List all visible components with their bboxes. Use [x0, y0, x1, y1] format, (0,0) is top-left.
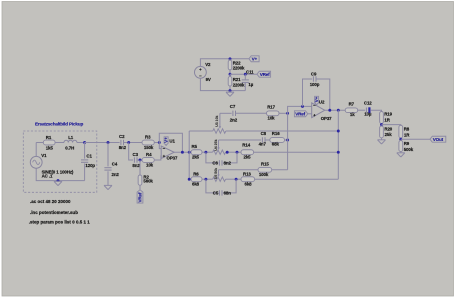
wire V2 top [200, 59, 249, 67]
wire U2 V+ stub [316, 103, 318, 105]
net flag VOut [430, 136, 446, 142]
svg-text:C9: C9 [311, 72, 317, 77]
net flag V+ at U1 [164, 137, 169, 145]
wire U1 V+ stub [165, 144, 167, 146]
wire C1 branch [84, 143, 86, 159]
svg-text:R13: R13 [243, 171, 251, 176]
svg-text:4n7: 4n7 [259, 142, 267, 147]
wire R16 to sum bus [285, 139, 288, 141]
wire V1 to R1 [36, 142, 43, 144]
wire C4 to gnd [107, 171, 109, 185]
svg-text:R7: R7 [349, 101, 355, 106]
svg-text:VRef: VRef [138, 192, 143, 202]
node R6 left [188, 178, 191, 181]
resistor R16 [270, 131, 285, 147]
svg-text:U5 50k: U5 50k [214, 168, 218, 179]
potentiometer P3 [213, 168, 226, 182]
node R2 tap [139, 159, 142, 162]
wire R20 to ground [381, 138, 383, 140]
svg-text:150k: 150k [144, 145, 154, 150]
resistor R22 [228, 60, 245, 70]
net flag VRef [257, 71, 271, 77]
node C9 join [301, 105, 304, 108]
wire R22 stubs [229, 59, 231, 60]
net flag V+ at U2 [314, 96, 319, 104]
node pickup output [83, 141, 86, 144]
svg-text:2k5: 2k5 [244, 155, 252, 160]
svg-text:R6: R6 [193, 171, 199, 176]
svg-text:V+: V+ [252, 57, 258, 62]
capacitor C8 [259, 131, 267, 147]
node C3 tap [127, 141, 130, 144]
wire R1 to L1 [55, 142, 64, 144]
svg-text:1µ: 1µ [248, 82, 253, 87]
wire C2 to R3 [124, 142, 142, 144]
svg-text:8n2: 8n2 [132, 163, 140, 168]
wire R3 to node [154, 142, 159, 144]
node R16 join [286, 139, 289, 142]
svg-text:1R: 1R [404, 133, 410, 138]
svg-text:8n2: 8n2 [119, 145, 127, 150]
svg-text:.step param pos list 0 0.5 1 1: .step param pos list 0 0.5 1 1 [29, 220, 91, 225]
inductor L1 [64, 135, 77, 150]
svg-text:Ersatzschaltbild Pickup: Ersatzschaltbild Pickup [35, 122, 83, 127]
svg-text:6k8: 6k8 [192, 182, 200, 187]
node C9 out join [328, 109, 331, 112]
wire L1 to node [77, 142, 85, 144]
node C11 tap [244, 73, 247, 76]
wire C5 loop [206, 179, 219, 193]
net flag V+ [249, 56, 259, 62]
wire V1 top [35, 143, 37, 157]
svg-text:2n2: 2n2 [112, 172, 120, 177]
wire wiper2 to C8 [219, 139, 262, 141]
resistor R14 [241, 143, 254, 160]
svg-text:.inc potentiometer.sub: .inc potentiometer.sub [30, 210, 78, 215]
svg-text:OP37: OP37 [167, 156, 178, 161]
svg-text:25k: 25k [385, 132, 393, 137]
wire C9 right [316, 79, 330, 110]
node C4 tap [107, 141, 110, 144]
wire C9 left [303, 79, 313, 106]
svg-text:1R: 1R [384, 118, 390, 123]
potentiometer P2 [213, 139, 226, 154]
node pickup gnd [57, 179, 60, 182]
svg-text:2n2: 2n2 [230, 117, 238, 122]
resistor R4 [142, 152, 154, 168]
op-amp U2 [312, 100, 332, 121]
wire C12 to R19 [371, 110, 382, 111]
wire R9 to ground [400, 152, 402, 153]
svg-text:100k: 100k [259, 172, 269, 177]
svg-text:68k: 68k [272, 141, 280, 146]
resistor R6 [191, 171, 202, 186]
svg-text:R16: R16 [272, 131, 280, 136]
wire pot1 left [189, 130, 213, 132]
node V+ node [229, 57, 232, 60]
svg-text:C7: C7 [230, 104, 236, 109]
wire R5 to pot2 [202, 151, 213, 153]
svg-text:C3: C3 [133, 152, 139, 157]
wire R14 to out bus [254, 151, 339, 153]
svg-text:R20: R20 [384, 127, 392, 132]
wire R2 bottom [139, 185, 141, 190]
wire R4 to U1 -in [154, 156, 161, 160]
node out bus R14 [337, 151, 340, 154]
resistor R8 [399, 125, 410, 138]
svg-text:VRef: VRef [295, 112, 305, 117]
wire C3 branch [129, 143, 133, 161]
svg-text:R21: R21 [233, 77, 241, 82]
resistor R19 [380, 112, 393, 124]
wire C6 loop [206, 152, 219, 163]
svg-text:R19: R19 [384, 112, 392, 117]
svg-text:9V: 9V [206, 77, 211, 82]
svg-text:R8: R8 [404, 127, 410, 132]
svg-text:C4: C4 [112, 161, 118, 166]
node out bus pot1 [337, 130, 340, 133]
wire R21 stubs [229, 74, 231, 76]
wire R2 top [139, 160, 141, 175]
svg-text:U4 25k: U4 25k [214, 139, 218, 150]
potentiometer P1 [213, 113, 226, 133]
svg-text:V1: V1 [41, 153, 47, 158]
svg-text:R5: R5 [192, 144, 198, 149]
wire R19 to R20 [381, 124, 383, 127]
wire C1 to bottom [84, 164, 86, 181]
wire R15 to sum bus [272, 169, 288, 171]
svg-text:560k: 560k [143, 179, 153, 184]
wire U1 feedback loop [159, 133, 182, 152]
svg-text:U3 10k: U3 10k [215, 115, 219, 126]
capacitor C9 [310, 72, 320, 87]
wire main input [85, 142, 120, 144]
svg-text:R4: R4 [146, 152, 152, 157]
wire VRef wire [230, 73, 257, 75]
wire R8 to R9 [400, 138, 402, 141]
node VRef divider [229, 73, 232, 76]
wire wiper3 to R15 [219, 169, 259, 171]
capacitor C6 [212, 160, 231, 165]
Ersatzschaltbild Pickup dashed boundary [23, 131, 97, 192]
wire volume tap to R8 [382, 124, 401, 127]
node sum node [286, 112, 289, 115]
capacitor C5 [213, 190, 231, 195]
svg-text:10k: 10k [146, 162, 154, 167]
resistor R5 [191, 144, 202, 159]
ground V2 [226, 92, 234, 96]
resistor R15 [258, 162, 272, 177]
wire R17 to sum node [279, 112, 288, 114]
svg-text:OP37: OP37 [321, 116, 332, 121]
svg-text:500k: 500k [404, 147, 414, 152]
net flag VRef at R2 [137, 190, 143, 203]
capacitor C4 [104, 161, 119, 177]
node C6 right [236, 151, 239, 154]
svg-text:1k5: 1k5 [46, 145, 54, 150]
node U1 out bus [188, 151, 191, 154]
svg-text:1k: 1k [350, 112, 355, 117]
svg-text:C1: C1 [86, 153, 92, 158]
svg-text:C5: C5 [213, 191, 219, 196]
svg-text:6k8: 6k8 [245, 182, 253, 187]
wire to VOut flag [401, 138, 430, 140]
capacitor C12 [364, 100, 372, 116]
svg-text:R9: R9 [404, 141, 410, 146]
voltage source V2 [195, 62, 212, 82]
wire out bus [337, 110, 339, 179]
wire V1 bottom [36, 168, 84, 180]
svg-text:.ac oct 48 20 20000: .ac oct 48 20 20000 [30, 199, 71, 204]
wire sum bus [288, 106, 312, 169]
wire U1 output [174, 151, 191, 153]
svg-text:R3: R3 [145, 134, 151, 139]
wire pot1 right to out bus [226, 130, 338, 132]
voltage source V1 [30, 153, 74, 179]
svg-text:2200k: 2200k [233, 82, 245, 87]
ground C4 [104, 185, 112, 189]
svg-text:V2: V2 [205, 62, 211, 67]
wire R6 to pot3 [202, 178, 213, 180]
capacitor C2 [119, 134, 127, 150]
svg-text:100p: 100p [310, 82, 320, 87]
svg-text:C12: C12 [364, 100, 372, 105]
wire C4 branch [107, 143, 109, 167]
svg-text:R17: R17 [267, 104, 275, 109]
ground R9 [397, 153, 405, 157]
node C5 right [235, 178, 238, 181]
wire C11 [244, 74, 246, 79]
resistor R9 [399, 141, 414, 152]
capacitor C1 [81, 153, 95, 168]
resistor R2 [138, 175, 153, 186]
svg-text:L1: L1 [68, 135, 74, 140]
capacitor C3 [132, 152, 140, 168]
wire V2 bottom [200, 78, 245, 90]
op-amp U1 [161, 138, 178, 160]
node VOut node [399, 138, 402, 141]
wire C3 to R2 node [137, 159, 142, 161]
node out bus top [337, 109, 340, 112]
svg-text:8n2: 8n2 [224, 160, 232, 165]
capacitor C11 [242, 80, 254, 87]
node V2 gnd [229, 89, 232, 92]
resistor R13 [241, 171, 255, 186]
svg-text:R14: R14 [242, 143, 250, 148]
resistor R7 [345, 101, 358, 117]
node U1 fb join [181, 151, 184, 154]
svg-text:U1: U1 [169, 138, 175, 143]
node volume tap [380, 123, 383, 126]
svg-text:C2: C2 [119, 134, 125, 139]
svg-text:R15: R15 [261, 162, 269, 167]
svg-text:U2: U2 [319, 100, 325, 105]
svg-text:C11: C11 [246, 70, 254, 75]
ground pickup [54, 181, 62, 185]
resistor R17 [267, 104, 280, 120]
svg-text:C6: C6 [212, 160, 218, 165]
svg-text:VOut: VOut [433, 137, 444, 142]
wire node to U1 +in [159, 143, 161, 149]
wire pot3 right [226, 178, 241, 180]
resistor R20 [380, 126, 393, 138]
wire wiper1 to C7 [220, 112, 232, 114]
svg-text:VRef: VRef [260, 72, 270, 77]
svg-text:C8: C8 [261, 131, 267, 136]
svg-text:0.7H: 0.7H [65, 145, 74, 150]
wire C8 to R16 [265, 139, 270, 141]
wire VRef to U2 +in [308, 113, 312, 115]
node C6 left [204, 151, 207, 154]
svg-text:2k5: 2k5 [192, 155, 200, 160]
wire R13 to out bus [255, 178, 339, 180]
wire left bus [188, 131, 190, 179]
wire R7 to C12 [358, 109, 365, 111]
resistor R21 [228, 77, 245, 88]
svg-text:AC .1: AC .1 [42, 174, 53, 179]
svg-text:120p: 120p [85, 163, 95, 168]
node U1 +in node [158, 141, 161, 144]
svg-text:10µ: 10µ [364, 112, 372, 117]
svg-text:68n: 68n [224, 191, 232, 196]
capacitor C7 [230, 104, 238, 122]
resistor R1 [43, 135, 55, 150]
svg-text:10k: 10k [268, 116, 276, 121]
ground R20 [378, 140, 386, 144]
svg-text:2200k: 2200k [233, 65, 245, 70]
svg-text:R1: R1 [46, 135, 52, 140]
net flag VRef at U2 [294, 111, 307, 117]
node pot2 right [226, 151, 229, 154]
wire U2 output [325, 109, 346, 111]
wire C7 to R17 [236, 112, 267, 114]
node C5 left [204, 178, 207, 181]
resistor R3 [142, 134, 154, 150]
wire pot2 right [226, 151, 241, 153]
svg-text:V+: V+ [164, 137, 169, 143]
